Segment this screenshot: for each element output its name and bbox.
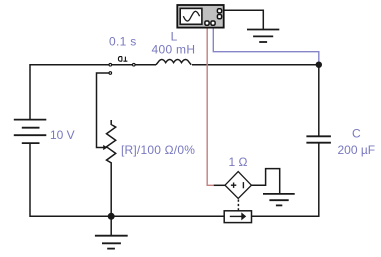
svg-text:C: C	[352, 127, 361, 141]
svg-text:L: L	[171, 29, 178, 43]
svg-text:400 mH: 400 mH	[152, 43, 196, 57]
svg-text:[R]/100 Ω/0%: [R]/100 Ω/0%	[121, 143, 195, 157]
svg-text:1 Ω: 1 Ω	[229, 155, 248, 169]
svg-text:200 µF: 200 µF	[338, 143, 376, 157]
svg-text:10 V: 10 V	[50, 128, 75, 142]
svg-text:0.1 s: 0.1 s	[109, 35, 137, 49]
